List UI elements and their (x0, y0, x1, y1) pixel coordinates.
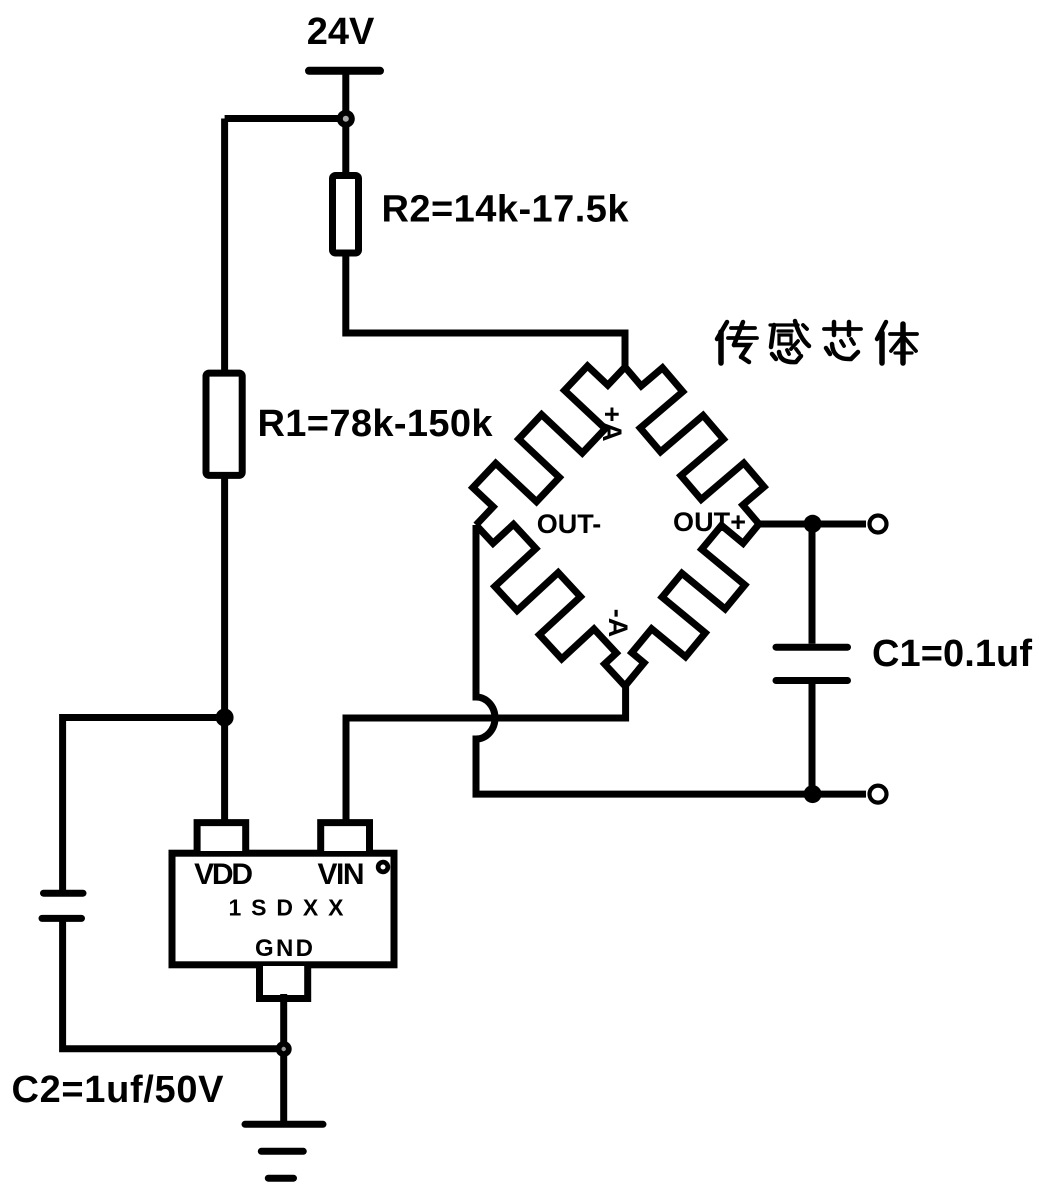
svg-text:VDD: VDD (194, 858, 253, 891)
svg-text:C2=1uf/50V: C2=1uf/50V (12, 1069, 225, 1111)
wire 24V bar to R2 top (342, 71, 349, 172)
label sensor body (Chinese) (717, 322, 757, 363)
junction dot at 24V node (337, 110, 355, 128)
svg-text:C1=0.1uf: C1=0.1uf (872, 633, 1032, 675)
wire junction to left rail (225, 115, 346, 122)
wire OUT+ node down to C1 (809, 524, 816, 644)
capacitor C2 (44, 890, 84, 897)
bridge arm bottom-right (625, 524, 759, 686)
capacitor C1 (776, 644, 848, 651)
wire GND pin to ground symbol (280, 994, 287, 1124)
wire VIN riser to bridge bottom (346, 686, 626, 827)
pin VDD (197, 823, 246, 851)
svg-text:-A: -A (603, 609, 633, 638)
terminal circle lower (870, 786, 887, 803)
power rail 24V bar (309, 67, 380, 75)
svg-text:24V: 24V (307, 11, 375, 53)
resistor R2 (333, 176, 359, 254)
svg-text:VIN: VIN (318, 858, 365, 891)
bridge arm bottom-left (476, 524, 625, 686)
svg-text:R2=14k-17.5k: R2=14k-17.5k (382, 189, 630, 231)
wire VDD drop (221, 718, 228, 828)
wire R2 bottom to bridge top corner (346, 253, 625, 367)
svg-text:OUT-: OUT- (537, 509, 602, 539)
pin GND (260, 966, 308, 999)
wire C1 bottom to lower rail (809, 684, 816, 794)
junction dot C1 bottom node (804, 785, 822, 803)
wire OUT+ to terminal (759, 521, 866, 528)
svg-text:GND: GND (255, 935, 313, 962)
svg-text:OUT+: OUT+ (673, 507, 746, 537)
wire left rail down to R1 (221, 119, 228, 374)
svg-text:R1=78k-150k: R1=78k-150k (258, 403, 494, 445)
wire OUT- down with hop, to lower terminal (476, 525, 866, 794)
pin VIN (321, 823, 370, 851)
junction dot OUT+ node (804, 515, 822, 533)
chip U1 1SDXX body (172, 853, 394, 965)
wire VDD junction to C2 (63, 718, 225, 894)
pin-1 index dot (376, 860, 390, 874)
bridge arm top-right (625, 367, 764, 524)
wire C2 bottom to ground rail (63, 918, 284, 1048)
junction dot VDD node (216, 709, 234, 727)
svg-text:+A: +A (597, 406, 627, 441)
ground symbol (245, 1121, 323, 1128)
bridge arm top-left (473, 366, 625, 525)
resistor R1 (206, 373, 242, 475)
terminal circle upper (870, 516, 887, 533)
junction dot ground node (276, 1041, 292, 1057)
wire R1 bottom to VDD junction (221, 475, 228, 717)
